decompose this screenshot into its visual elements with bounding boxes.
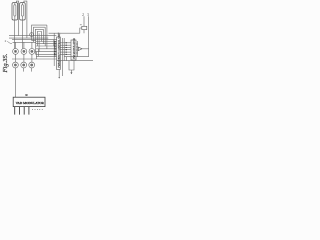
svg-text:2: 2 [5, 39, 7, 43]
svg-text:60: 60 [25, 94, 28, 97]
svg-text:Fig.35.: Fig.35. [2, 53, 9, 73]
svg-text:2: 2 [82, 13, 84, 17]
svg-text:VAD MODULATOR: VAD MODULATOR [16, 101, 45, 105]
svg-text:FREQUENCY CONTROL UNIT: FREQUENCY CONTROL UNIT [58, 32, 61, 68]
svg-text:3: 3 [87, 13, 89, 17]
svg-text:FM MODULATOR: FM MODULATOR [73, 38, 76, 59]
svg-text:OSCILLATOR: OSCILLATOR [53, 42, 56, 57]
